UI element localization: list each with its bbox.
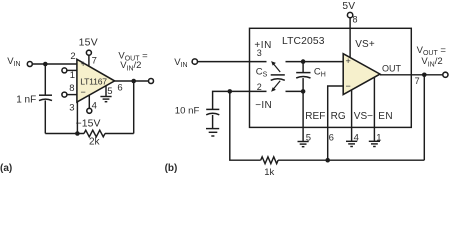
label -15V: [76, 119, 101, 130]
node CH top: [301, 59, 306, 64]
label 15V: [79, 38, 98, 49]
label VOUT = (b): [417, 45, 447, 57]
wire C1 to bottom rail: [44, 100, 46, 133]
ground pin4 (b): [346, 141, 357, 146]
capacitor CS: [271, 75, 285, 80]
wire output (a): [115, 80, 149, 82]
label pin 1: [70, 70, 75, 81]
svg-text:7: 7: [92, 56, 97, 67]
svg-text:5: 5: [306, 133, 311, 144]
label minus input (a): [81, 87, 86, 97]
wire -IN stub: [250, 90, 267, 92]
wire rail to feedback riser: [105, 133, 134, 135]
wire bottom rail left: [45, 133, 84, 135]
wire VIN to +IN stub: [198, 61, 267, 63]
wire pin8: [67, 94, 77, 96]
terminal pin8 RG: [62, 92, 67, 97]
svg-text:−: −: [346, 81, 351, 91]
svg-text:2k: 2k: [89, 136, 101, 147]
label CS: [256, 67, 268, 79]
svg-text:OUT: OUT: [382, 63, 402, 73]
svg-text:CH: CH: [314, 67, 326, 79]
svg-text:7: 7: [415, 76, 420, 86]
label pin 3: [69, 103, 74, 114]
node output junction (b): [422, 73, 427, 78]
svg-text:LT1167: LT1167: [80, 76, 107, 86]
svg-text:VS−: VS−: [354, 111, 373, 122]
op-amp U2 (b): [343, 54, 380, 95]
label pin 8: [69, 83, 74, 94]
wire VIN to pin2: [32, 63, 77, 65]
svg-text:VIN: VIN: [7, 56, 20, 68]
wire output (b): [380, 74, 443, 76]
svg-text:4: 4: [354, 133, 359, 144]
switch arrow bottom: [271, 81, 280, 92]
label pin 1 (b): [376, 133, 381, 144]
svg-text:LTC2053: LTC2053: [282, 36, 325, 47]
label VS-: [354, 111, 373, 122]
svg-text:5: 5: [107, 86, 112, 97]
wire pin3: [76, 102, 78, 134]
label OUT: [382, 63, 402, 73]
label pin 4: [92, 100, 97, 111]
svg-text:−15V: −15V: [76, 119, 101, 130]
label plus input (a): [81, 59, 86, 69]
svg-text:6: 6: [329, 133, 334, 144]
node -IN junction 10nF: [228, 89, 233, 94]
label pin 3 (b): [257, 48, 262, 58]
svg-text:REF: REF: [305, 111, 325, 122]
svg-text:−IN: −IN: [255, 100, 272, 111]
svg-text:1: 1: [70, 70, 75, 81]
label pin 2: [70, 51, 75, 62]
wire top rail to amp: [286, 61, 344, 63]
terminal -15V pin4: [87, 108, 92, 113]
svg-text:(a): (a): [0, 163, 12, 174]
wire pin1: [67, 69, 77, 71]
label pin 8 (b): [353, 14, 358, 24]
wire VS+ internal pin8: [349, 18, 351, 58]
svg-text:CS: CS: [256, 67, 268, 79]
IC box LTC2053: [250, 28, 412, 127]
capacitor CH: [296, 73, 310, 78]
resistor R1 2k: [84, 130, 105, 137]
svg-text:8: 8: [69, 83, 74, 94]
label VIN/2 (a): [120, 60, 141, 72]
wire CH top stub: [302, 62, 304, 73]
svg-text:+: +: [81, 59, 86, 69]
label EN: [378, 111, 393, 122]
label pin 6 (b): [329, 133, 334, 144]
ground 10nF: [206, 129, 219, 136]
node RG rail junction: [325, 158, 330, 163]
svg-text:VOUT =: VOUT =: [417, 45, 447, 57]
wire VS- internal pin4: [351, 90, 353, 141]
node CH bottom: [301, 89, 306, 94]
svg-text:1k: 1k: [264, 167, 274, 175]
resistor R2 1k: [261, 157, 278, 164]
label LT1167: [80, 76, 107, 86]
wire junction down to C1: [44, 64, 46, 95]
wire pin4: [88, 95, 90, 108]
terminal VIN (b): [192, 59, 197, 64]
wire bottom rail CS to CH: [286, 90, 304, 92]
svg-text:5V: 5V: [342, 1, 355, 12]
label pin 6: [117, 82, 122, 93]
wire -IN node: [213, 91, 250, 109]
label pin 4 (b): [354, 133, 359, 144]
switch arrow top: [271, 61, 280, 72]
svg-text:VIN/2: VIN/2: [421, 56, 442, 68]
wire bottom rail (b): [230, 91, 424, 160]
wire REF drop pin5: [302, 91, 304, 141]
terminal 15V pin7: [86, 50, 91, 55]
node output junction (a): [131, 79, 136, 84]
ground pin5 (b): [298, 142, 309, 147]
ground pin1 (b): [369, 141, 380, 146]
capacitor C1 1nF: [39, 95, 52, 100]
label 5V: [342, 1, 355, 12]
label minus input (b): [346, 81, 351, 91]
svg-text:(b): (b): [165, 163, 178, 174]
label REF: [305, 111, 325, 122]
svg-text:8: 8: [353, 14, 358, 24]
ground pin5: [100, 97, 111, 102]
label pin 5: [107, 86, 112, 97]
label pin 5 (b): [306, 133, 311, 144]
label pin 7 (b): [415, 76, 420, 86]
label +IN: [254, 40, 272, 51]
wire feedback drop (b): [423, 75, 425, 160]
wire CH bottom stub: [302, 78, 304, 91]
op-amp U1 LT1167: [77, 59, 115, 102]
svg-text:6: 6: [117, 82, 122, 93]
label VIN (a): [7, 56, 20, 68]
label RG: [331, 111, 346, 122]
label 1k: [264, 167, 274, 178]
svg-text:RG: RG: [331, 111, 346, 122]
label (b): [165, 163, 178, 174]
wire minus input feedback: [328, 86, 344, 160]
svg-text:EN: EN: [378, 111, 393, 122]
label (a): [0, 163, 12, 174]
node input junction: [43, 62, 48, 67]
label VIN (b): [174, 57, 187, 69]
svg-text:VIN: VIN: [174, 57, 187, 69]
terminal pin1 RG: [62, 68, 67, 73]
label LTC2053: [282, 36, 325, 47]
terminal 5V: [347, 12, 352, 17]
label pin 2 (b): [257, 82, 262, 92]
svg-text:1 nF: 1 nF: [16, 95, 36, 106]
label plus input (b): [346, 56, 351, 66]
label VIN/2 (b): [421, 56, 442, 68]
wire EN internal pin1: [373, 78, 375, 142]
terminal VOUT (a): [149, 79, 154, 84]
capacitor C2 10nF: [206, 109, 219, 114]
label 1 nF: [16, 95, 36, 106]
label VS+: [355, 39, 375, 50]
label pin 7: [92, 56, 97, 67]
wire feedback riser: [133, 81, 135, 134]
svg-text:2: 2: [70, 51, 75, 62]
wire pin7: [88, 55, 90, 66]
node pin3 junction: [75, 131, 80, 136]
svg-text:−: −: [81, 87, 86, 97]
terminal VIN (a): [27, 62, 32, 67]
svg-text:15V: 15V: [79, 38, 98, 49]
label VOUT = (a): [118, 50, 148, 62]
wire pin5: [105, 86, 107, 97]
label 10 nF: [175, 105, 200, 116]
svg-text:3: 3: [69, 103, 74, 114]
label 2k: [89, 136, 101, 147]
terminal VOUT (b): [443, 72, 448, 77]
svg-text:VS+: VS+: [355, 39, 375, 50]
label CH: [314, 67, 326, 79]
svg-text:4: 4: [92, 100, 97, 111]
wire 10nF to ground: [212, 115, 214, 128]
svg-text:2: 2: [257, 82, 262, 92]
label -IN: [255, 100, 272, 111]
svg-text:3: 3: [257, 48, 262, 58]
svg-text:10 nF: 10 nF: [175, 105, 200, 116]
svg-text:1: 1: [376, 133, 381, 144]
